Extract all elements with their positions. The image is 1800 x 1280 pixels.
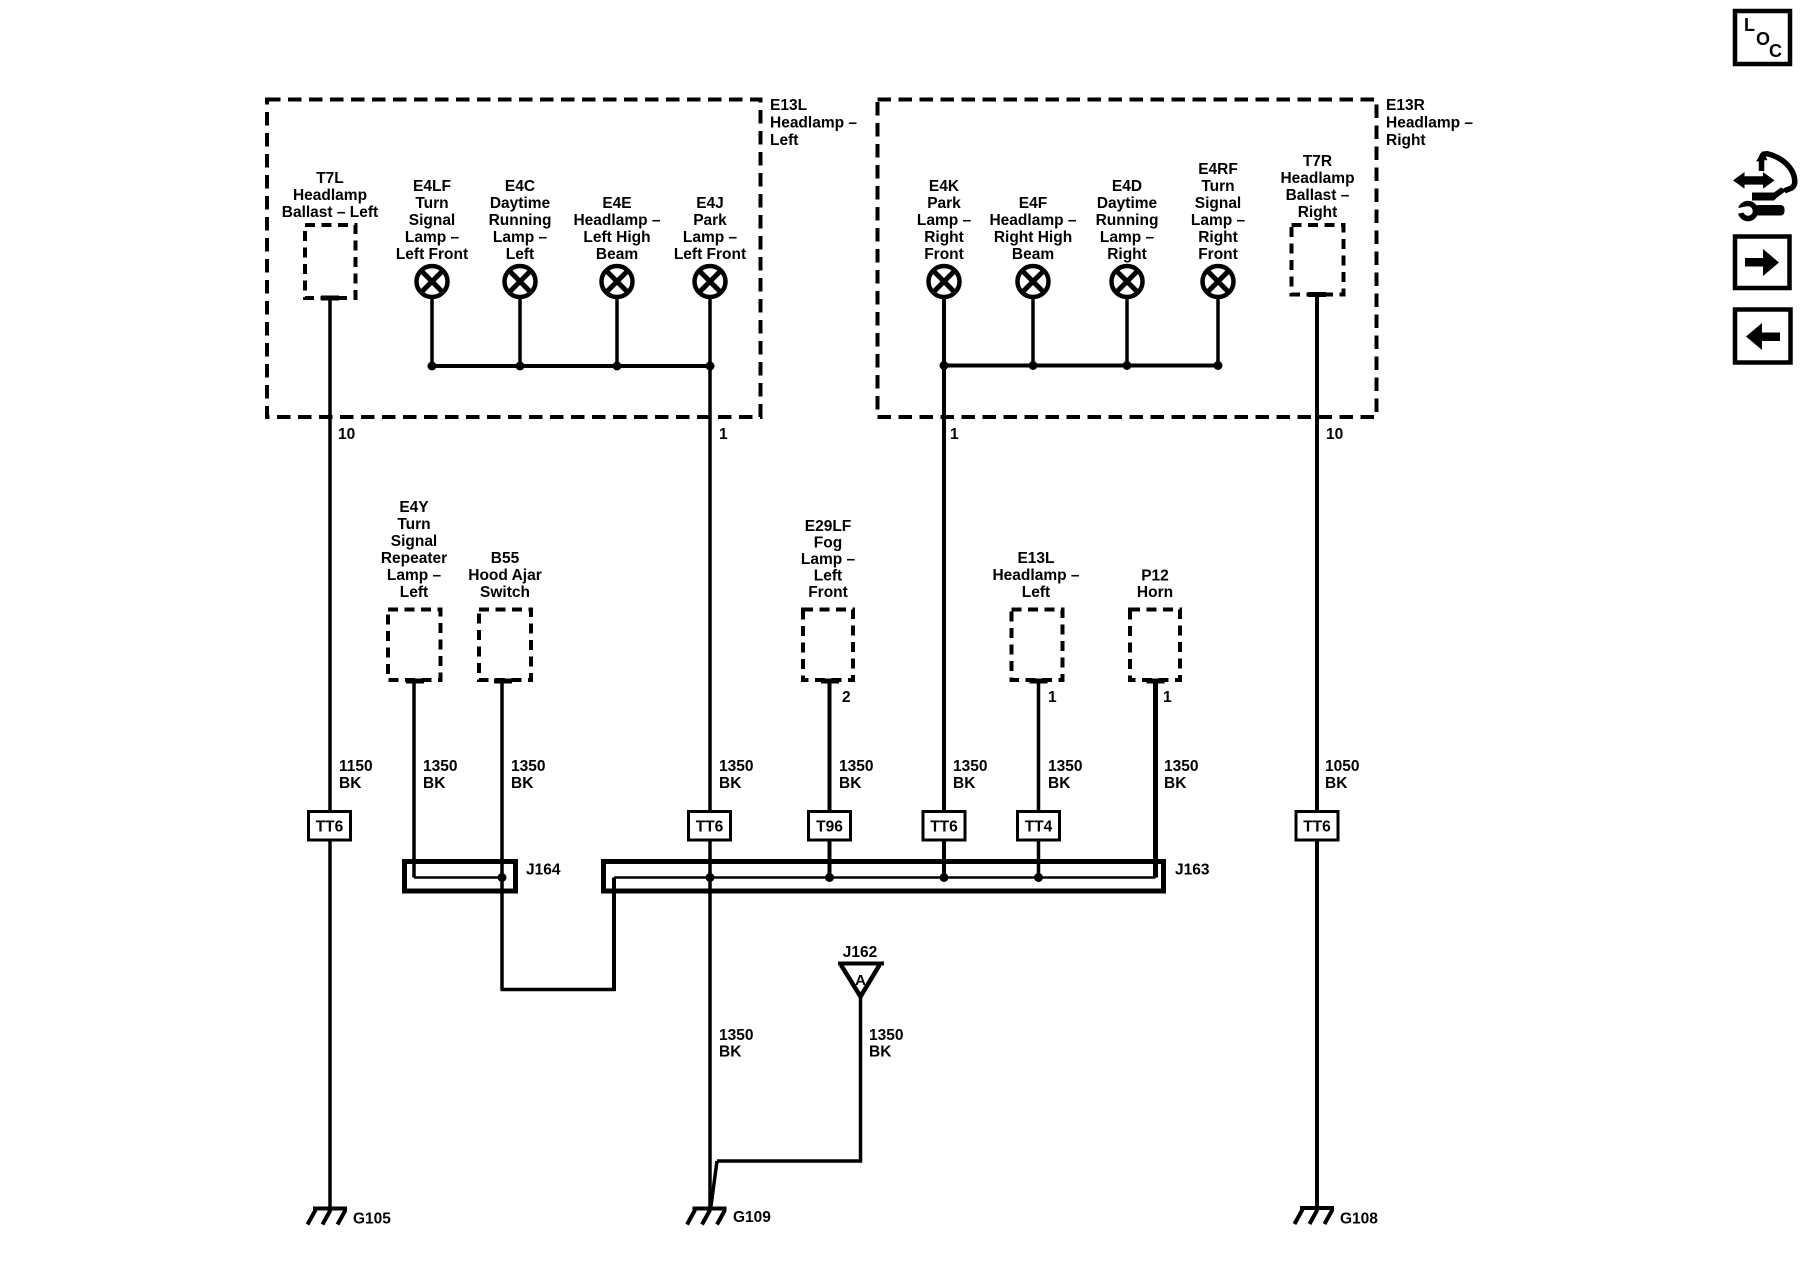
wire E4D drop <box>1125 297 1129 366</box>
svg-text:O: O <box>1756 29 1770 49</box>
label E13R Headlamp - Right <box>1386 97 1473 149</box>
svg-text:1350: 1350 <box>953 758 987 775</box>
lamp E4RF Turn Signal Lamp - Right Front <box>1191 161 1246 297</box>
svg-text:TT6: TT6 <box>696 819 724 836</box>
svg-text:G109: G109 <box>733 1209 771 1226</box>
svg-text:Headlamp –: Headlamp – <box>989 212 1076 229</box>
svg-text:J162: J162 <box>843 944 877 961</box>
svg-text:Turn: Turn <box>1201 178 1234 195</box>
wire label 1350 BK P12 <box>1164 758 1198 792</box>
svg-text:1350: 1350 <box>1164 758 1198 775</box>
svg-text:1: 1 <box>1048 689 1057 706</box>
svg-text:Lamp –: Lamp – <box>387 567 442 584</box>
ballast T7R Headlamp Ballast - Right <box>1280 153 1354 295</box>
icon vehicle service (car, double arrow, wrench) <box>1733 151 1795 219</box>
svg-text:E29LF: E29LF <box>805 518 852 535</box>
svg-text:L: L <box>1744 15 1755 35</box>
svg-text:1350: 1350 <box>1048 758 1082 775</box>
splice pack J163 <box>604 862 1210 892</box>
wire label 1350 BK E4Y <box>423 758 457 792</box>
ground G109 <box>687 1209 771 1227</box>
svg-text:Daytime: Daytime <box>1097 195 1158 212</box>
svg-text:Left: Left <box>506 246 534 263</box>
svg-text:BK: BK <box>339 775 362 792</box>
svg-text:BK: BK <box>869 1044 892 1061</box>
wire label 1350 BK E4K <box>953 758 987 792</box>
horn P12 <box>1130 568 1180 682</box>
svg-text:Switch: Switch <box>480 584 530 601</box>
lamp E4E Headlamp - Left High Beam <box>573 195 660 297</box>
svg-text:1150: 1150 <box>339 758 373 775</box>
svg-text:BK: BK <box>839 775 862 792</box>
svg-text:Headlamp: Headlamp <box>1280 170 1354 187</box>
svg-text:Signal: Signal <box>409 212 456 229</box>
ground G105 <box>308 1209 392 1228</box>
svg-text:J163: J163 <box>1175 862 1210 879</box>
wire label 1050 BK T7R <box>1325 758 1359 792</box>
svg-text:BK: BK <box>1325 775 1348 792</box>
lamp E4F Headlamp - Right High Beam <box>989 195 1076 297</box>
icon arrow previous page <box>1735 310 1791 363</box>
svg-text:Right: Right <box>1298 204 1338 221</box>
wire E4Y to J164 <box>412 681 416 878</box>
node junction E4LF <box>428 362 437 371</box>
svg-text:T96: T96 <box>816 819 843 836</box>
wire P12 to J163 <box>1153 681 1158 878</box>
wire J162 drop <box>859 997 863 1162</box>
wire J162 to G109 diagonal <box>711 1161 717 1206</box>
wire TT6 to J163 (E4K) <box>942 841 946 878</box>
svg-text:Lamp –: Lamp – <box>801 551 856 568</box>
wire E4K to TT6 <box>942 297 946 811</box>
splice J162 symbol <box>838 944 884 997</box>
wire E4J to TT6 <box>708 297 712 811</box>
icon arrow next page <box>1735 237 1790 289</box>
svg-text:Signal: Signal <box>1195 195 1242 212</box>
svg-text:G108: G108 <box>1340 1211 1378 1228</box>
svg-text:TT6: TT6 <box>930 819 958 836</box>
terminal TT6 on T7L wire <box>309 812 351 841</box>
connector box E13L Headlamp - Left <box>267 100 761 418</box>
wire J163 internal bus <box>614 876 1156 879</box>
lamp E29LF Fog Lamp - Left Front <box>801 518 856 681</box>
svg-text:TT6: TT6 <box>1303 819 1331 836</box>
svg-text:1350: 1350 <box>869 1027 903 1044</box>
node junction E4D <box>1123 361 1132 370</box>
node junction J164 <box>498 873 507 882</box>
wire TT4 to J163 <box>1037 841 1041 878</box>
svg-text:A: A <box>855 972 866 989</box>
svg-text:Park: Park <box>693 212 727 229</box>
svg-text:Right: Right <box>1198 229 1238 246</box>
svg-text:Turn: Turn <box>397 516 430 533</box>
svg-text:E4RF: E4RF <box>1198 161 1238 178</box>
svg-text:Left Front: Left Front <box>674 246 746 263</box>
svg-text:Left: Left <box>814 568 842 585</box>
node junction E4J corner <box>706 362 715 371</box>
svg-text:1350: 1350 <box>839 758 873 775</box>
svg-text:Daytime: Daytime <box>490 195 551 212</box>
terminal TT6 on E4J wire <box>689 812 731 841</box>
wire right box bus <box>944 364 1220 368</box>
node junction J163 E13L <box>1034 873 1043 882</box>
lamp E4LF Turn Signal Lamp - Left Front <box>396 178 468 297</box>
wire E13L to TT4 <box>1037 681 1041 811</box>
svg-text:E4Y: E4Y <box>399 499 429 516</box>
svg-text:E4F: E4F <box>1019 195 1047 212</box>
svg-text:1: 1 <box>950 426 959 443</box>
svg-text:BK: BK <box>511 775 534 792</box>
svg-text:T7R: T7R <box>1303 153 1332 170</box>
svg-text:Beam: Beam <box>1012 246 1054 263</box>
wire T7R to TT6 <box>1315 295 1319 812</box>
wire TT6 to G105 <box>328 841 332 1208</box>
node junction J163 E29LF <box>825 873 834 882</box>
svg-text:Lamp –: Lamp – <box>493 229 548 246</box>
wire label 1150 BK <box>339 758 373 792</box>
wire label 1350 BK E4J <box>719 758 753 792</box>
svg-text:1: 1 <box>719 426 728 443</box>
svg-text:J164: J164 <box>526 862 561 879</box>
wire TT6 to G108 <box>1315 841 1319 1208</box>
lamp E4J Park Lamp - Left Front <box>674 195 746 297</box>
svg-text:10: 10 <box>338 426 355 443</box>
svg-text:2: 2 <box>842 689 851 706</box>
svg-text:BK: BK <box>719 775 742 792</box>
wire TT6 through J163 to G109 <box>708 841 712 1208</box>
svg-text:Hood Ajar: Hood Ajar <box>468 567 541 584</box>
svg-text:Lamp –: Lamp – <box>1191 212 1246 229</box>
svg-text:E4J: E4J <box>696 195 724 212</box>
svg-text:Headlamp: Headlamp <box>293 187 367 204</box>
wire T96 to J163 <box>828 841 832 878</box>
svg-text:1350: 1350 <box>511 758 545 775</box>
wire left box bus <box>430 364 710 368</box>
wire E4LF drop <box>430 297 434 366</box>
wire J162 to G109 horizontal <box>717 1159 862 1163</box>
lamp E4Y Turn Signal Repeater Lamp - Left <box>381 499 447 681</box>
node junction E4K corner <box>940 361 949 370</box>
node junction J163 E4J <box>706 873 715 882</box>
svg-text:Front: Front <box>808 584 848 601</box>
svg-text:TT4: TT4 <box>1025 819 1053 836</box>
ballast T7L Headlamp Ballast - Left <box>282 170 378 298</box>
wire E4C drop <box>518 297 522 366</box>
svg-text:B55: B55 <box>491 550 520 567</box>
svg-text:Lamp –: Lamp – <box>917 212 972 229</box>
node junction E4C <box>516 362 525 371</box>
svg-text:BK: BK <box>719 1044 742 1061</box>
svg-text:G105: G105 <box>353 1211 391 1228</box>
terminal TT4 on E13L wire <box>1018 812 1060 841</box>
node junction J163 E4K <box>940 873 949 882</box>
wire E29LF to T96 <box>828 681 832 811</box>
svg-text:BK: BK <box>953 775 976 792</box>
svg-text:Park: Park <box>927 195 961 212</box>
switch B55 Hood Ajar Switch <box>468 550 541 681</box>
node junction E4RF <box>1214 361 1223 370</box>
node junction E4E <box>613 362 622 371</box>
wire E4F drop <box>1031 297 1035 366</box>
wire label 1350 BK B55 <box>511 758 545 792</box>
svg-text:BK: BK <box>423 775 446 792</box>
terminal TT6 on T7R wire <box>1296 812 1338 841</box>
wire label 1350 BK E29LF <box>839 758 873 792</box>
wire B55 through J164 <box>500 681 504 990</box>
svg-text:Front: Front <box>1198 246 1238 263</box>
svg-text:Lamp –: Lamp – <box>1100 229 1155 246</box>
svg-text:C: C <box>1769 41 1782 61</box>
label E13L Headlamp - Left <box>770 97 857 149</box>
svg-text:Fog: Fog <box>814 535 842 552</box>
svg-text:Left: Left <box>770 132 798 149</box>
svg-text:P12: P12 <box>1141 568 1169 585</box>
lamp E4D Daytime Running Lamp - Right <box>1096 178 1159 297</box>
svg-text:Lamp –: Lamp – <box>683 229 738 246</box>
svg-text:E4LF: E4LF <box>413 178 451 195</box>
node junction E4F <box>1029 361 1038 370</box>
svg-text:Front: Front <box>924 246 964 263</box>
svg-text:E4K: E4K <box>929 178 960 195</box>
lamp E4C Daytime Running Lamp - Left <box>489 178 552 297</box>
svg-text:Left High: Left High <box>583 229 650 246</box>
svg-text:Ballast – Left: Ballast – Left <box>282 204 378 221</box>
svg-text:1050: 1050 <box>1325 758 1359 775</box>
svg-text:Headlamp –: Headlamp – <box>992 567 1079 584</box>
wire label 1350 BK G109 branch <box>719 1027 753 1061</box>
svg-text:Right High: Right High <box>994 229 1072 246</box>
svg-text:10: 10 <box>1326 426 1343 443</box>
svg-text:T7L: T7L <box>316 170 344 187</box>
wire E4E drop <box>615 297 619 366</box>
svg-text:Beam: Beam <box>596 246 638 263</box>
svg-text:E13R: E13R <box>1386 97 1425 114</box>
svg-text:Horn: Horn <box>1137 584 1173 601</box>
connector E13L Headlamp - Left (middle) <box>992 550 1079 681</box>
svg-text:Left: Left <box>1022 584 1050 601</box>
svg-text:Left Front: Left Front <box>396 246 468 263</box>
wire J163 left riser <box>612 878 616 992</box>
svg-text:Right: Right <box>924 229 964 246</box>
svg-text:Right: Right <box>1386 132 1426 149</box>
svg-text:Headlamp –: Headlamp – <box>1386 115 1473 132</box>
wire J164 internal bus <box>414 876 503 879</box>
svg-text:Signal: Signal <box>391 533 438 550</box>
svg-text:Headlamp –: Headlamp – <box>770 115 857 132</box>
wire label 1350 BK E13L <box>1048 758 1082 792</box>
wire E4RF drop <box>1216 297 1220 366</box>
icon LOC box <box>1735 11 1790 64</box>
svg-text:E13L: E13L <box>770 97 807 114</box>
svg-text:Running: Running <box>489 212 552 229</box>
splice pack J164 <box>405 862 561 892</box>
svg-text:Right: Right <box>1107 246 1147 263</box>
svg-text:BK: BK <box>1048 775 1071 792</box>
svg-text:E13L: E13L <box>1017 550 1054 567</box>
svg-text:1350: 1350 <box>423 758 457 775</box>
terminal T96 on E29LF wire <box>809 812 851 841</box>
svg-text:TT6: TT6 <box>316 819 344 836</box>
svg-text:E4C: E4C <box>505 178 535 195</box>
svg-text:BK: BK <box>1164 775 1187 792</box>
ground G108 <box>1295 1208 1379 1228</box>
svg-text:Repeater: Repeater <box>381 550 447 567</box>
svg-text:E4E: E4E <box>602 195 631 212</box>
svg-text:Lamp –: Lamp – <box>405 229 460 246</box>
wire J164 to J163 horizontal <box>501 988 616 992</box>
svg-text:Headlamp –: Headlamp – <box>573 212 660 229</box>
svg-text:Ballast –: Ballast – <box>1286 187 1350 204</box>
connector box E13R Headlamp - Right <box>878 100 1377 418</box>
svg-text:Left: Left <box>400 584 428 601</box>
wire label 1350 BK J162 branch <box>869 1027 903 1061</box>
lamp E4K Park Lamp - Right Front <box>917 178 972 297</box>
terminal TT6 on E4K wire <box>923 812 965 841</box>
svg-text:E4D: E4D <box>1112 178 1142 195</box>
wire T7L to TT6 <box>328 298 332 811</box>
svg-text:Running: Running <box>1096 212 1159 229</box>
svg-text:1350: 1350 <box>719 1027 753 1044</box>
svg-text:Turn: Turn <box>415 195 448 212</box>
svg-text:1: 1 <box>1163 689 1172 706</box>
svg-text:1350: 1350 <box>719 758 753 775</box>
